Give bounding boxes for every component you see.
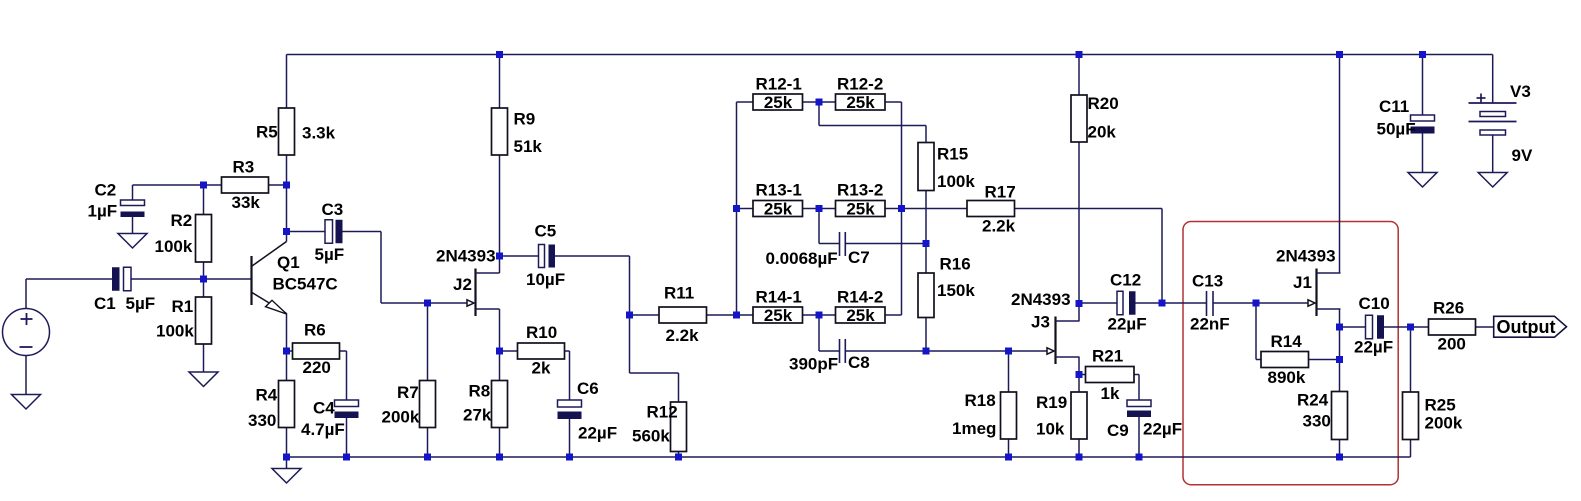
svg-text:Q1: Q1 xyxy=(277,253,300,272)
svg-text:R24: R24 xyxy=(1297,391,1329,410)
svg-text:5µF: 5µF xyxy=(315,245,345,264)
svg-text:200k: 200k xyxy=(382,408,420,427)
svg-text:5µF: 5µF xyxy=(126,294,156,313)
svg-text:22µF: 22µF xyxy=(1354,338,1393,357)
svg-text:C5: C5 xyxy=(535,222,557,241)
svg-text:C11: C11 xyxy=(1379,97,1409,116)
svg-text:2N4393: 2N4393 xyxy=(1276,247,1336,266)
svg-text:R12-2: R12-2 xyxy=(837,75,883,94)
svg-text:C8: C8 xyxy=(848,353,870,372)
svg-text:R5: R5 xyxy=(256,123,278,142)
svg-text:22µF: 22µF xyxy=(1108,315,1147,334)
svg-text:BC547C: BC547C xyxy=(273,274,338,293)
svg-text:C3: C3 xyxy=(322,200,344,219)
svg-text:R14: R14 xyxy=(1271,332,1303,351)
svg-text:22µF: 22µF xyxy=(578,424,617,443)
svg-text:25k: 25k xyxy=(764,93,793,112)
svg-text:R17: R17 xyxy=(985,183,1016,202)
svg-text:2N4393: 2N4393 xyxy=(436,247,496,266)
svg-text:10k: 10k xyxy=(1036,419,1065,438)
svg-text:51k: 51k xyxy=(514,137,543,156)
svg-text:25k: 25k xyxy=(846,200,875,219)
svg-text:20k: 20k xyxy=(1088,122,1117,141)
svg-text:C4: C4 xyxy=(313,398,335,417)
svg-text:R19: R19 xyxy=(1036,393,1067,412)
svg-text:3.3k: 3.3k xyxy=(302,123,336,142)
svg-text:R3: R3 xyxy=(233,157,255,176)
svg-text:R16: R16 xyxy=(940,255,971,274)
svg-text:25k: 25k xyxy=(846,93,875,112)
svg-text:27k: 27k xyxy=(463,406,492,425)
svg-text:R26: R26 xyxy=(1433,299,1464,318)
svg-text:2k: 2k xyxy=(532,358,551,377)
svg-text:330: 330 xyxy=(248,411,276,430)
svg-text:9V: 9V xyxy=(1512,146,1533,165)
svg-text:R8: R8 xyxy=(469,381,491,400)
svg-text:1µF: 1µF xyxy=(88,202,118,221)
svg-text:100k: 100k xyxy=(937,172,975,191)
svg-text:J1: J1 xyxy=(1293,273,1312,292)
svg-text:R9: R9 xyxy=(514,109,536,128)
svg-text:C2: C2 xyxy=(95,180,117,199)
svg-text:10µF: 10µF xyxy=(526,270,565,289)
svg-text:330: 330 xyxy=(1303,412,1331,431)
svg-text:C9: C9 xyxy=(1107,421,1129,440)
svg-text:J3: J3 xyxy=(1031,312,1050,331)
svg-text:R2: R2 xyxy=(171,211,193,230)
svg-text:R12: R12 xyxy=(647,403,678,422)
svg-text:Output: Output xyxy=(1497,317,1556,337)
svg-text:22nF: 22nF xyxy=(1190,315,1230,334)
svg-text:R14-2: R14-2 xyxy=(837,288,883,307)
svg-text:2.2k: 2.2k xyxy=(666,326,700,345)
svg-text:R4: R4 xyxy=(256,386,278,405)
svg-text:R11: R11 xyxy=(664,283,694,302)
svg-text:R7: R7 xyxy=(397,383,419,402)
svg-text:V3: V3 xyxy=(1510,82,1531,101)
svg-text:C12: C12 xyxy=(1110,271,1141,290)
svg-text:R18: R18 xyxy=(965,391,996,410)
svg-text:C7: C7 xyxy=(848,248,870,267)
svg-text:C13: C13 xyxy=(1192,271,1223,290)
svg-text:50µF: 50µF xyxy=(1377,119,1416,138)
svg-text:R13-2: R13-2 xyxy=(837,181,883,200)
svg-text:R14-1: R14-1 xyxy=(756,288,802,307)
svg-text:25k: 25k xyxy=(846,306,875,325)
svg-text:J2: J2 xyxy=(453,275,472,294)
svg-text:R21: R21 xyxy=(1092,346,1123,365)
svg-text:1k: 1k xyxy=(1101,384,1120,403)
svg-text:0.0068µF: 0.0068µF xyxy=(766,249,838,268)
svg-text:R1: R1 xyxy=(172,297,194,316)
svg-text:200k: 200k xyxy=(1425,413,1463,432)
svg-text:100k: 100k xyxy=(155,237,193,256)
svg-text:890k: 890k xyxy=(1268,368,1306,387)
svg-text:25k: 25k xyxy=(764,306,793,325)
svg-text:200: 200 xyxy=(1438,335,1466,354)
svg-text:22µF: 22µF xyxy=(1143,419,1182,438)
svg-text:R12-1: R12-1 xyxy=(756,75,802,94)
svg-text:150k: 150k xyxy=(937,281,975,300)
svg-text:220: 220 xyxy=(303,358,331,377)
svg-text:560k: 560k xyxy=(632,427,670,446)
svg-text:C1: C1 xyxy=(94,294,116,313)
svg-text:R15: R15 xyxy=(937,144,968,163)
svg-text:2N4393: 2N4393 xyxy=(1011,290,1071,309)
svg-text:R20: R20 xyxy=(1088,94,1119,113)
svg-text:R13-1: R13-1 xyxy=(756,181,802,200)
svg-text:2.2k: 2.2k xyxy=(982,217,1016,236)
svg-text:100k: 100k xyxy=(156,322,194,341)
svg-text:C6: C6 xyxy=(577,379,599,398)
svg-text:R25: R25 xyxy=(1425,395,1456,414)
svg-text:R6: R6 xyxy=(304,321,326,340)
svg-text:C10: C10 xyxy=(1359,294,1390,313)
svg-text:33k: 33k xyxy=(232,193,261,212)
svg-text:R10: R10 xyxy=(526,323,557,342)
svg-text:390pF: 390pF xyxy=(789,354,838,373)
svg-text:1meg: 1meg xyxy=(952,419,996,438)
svg-text:25k: 25k xyxy=(764,200,793,219)
svg-text:4.7µF: 4.7µF xyxy=(301,420,345,439)
